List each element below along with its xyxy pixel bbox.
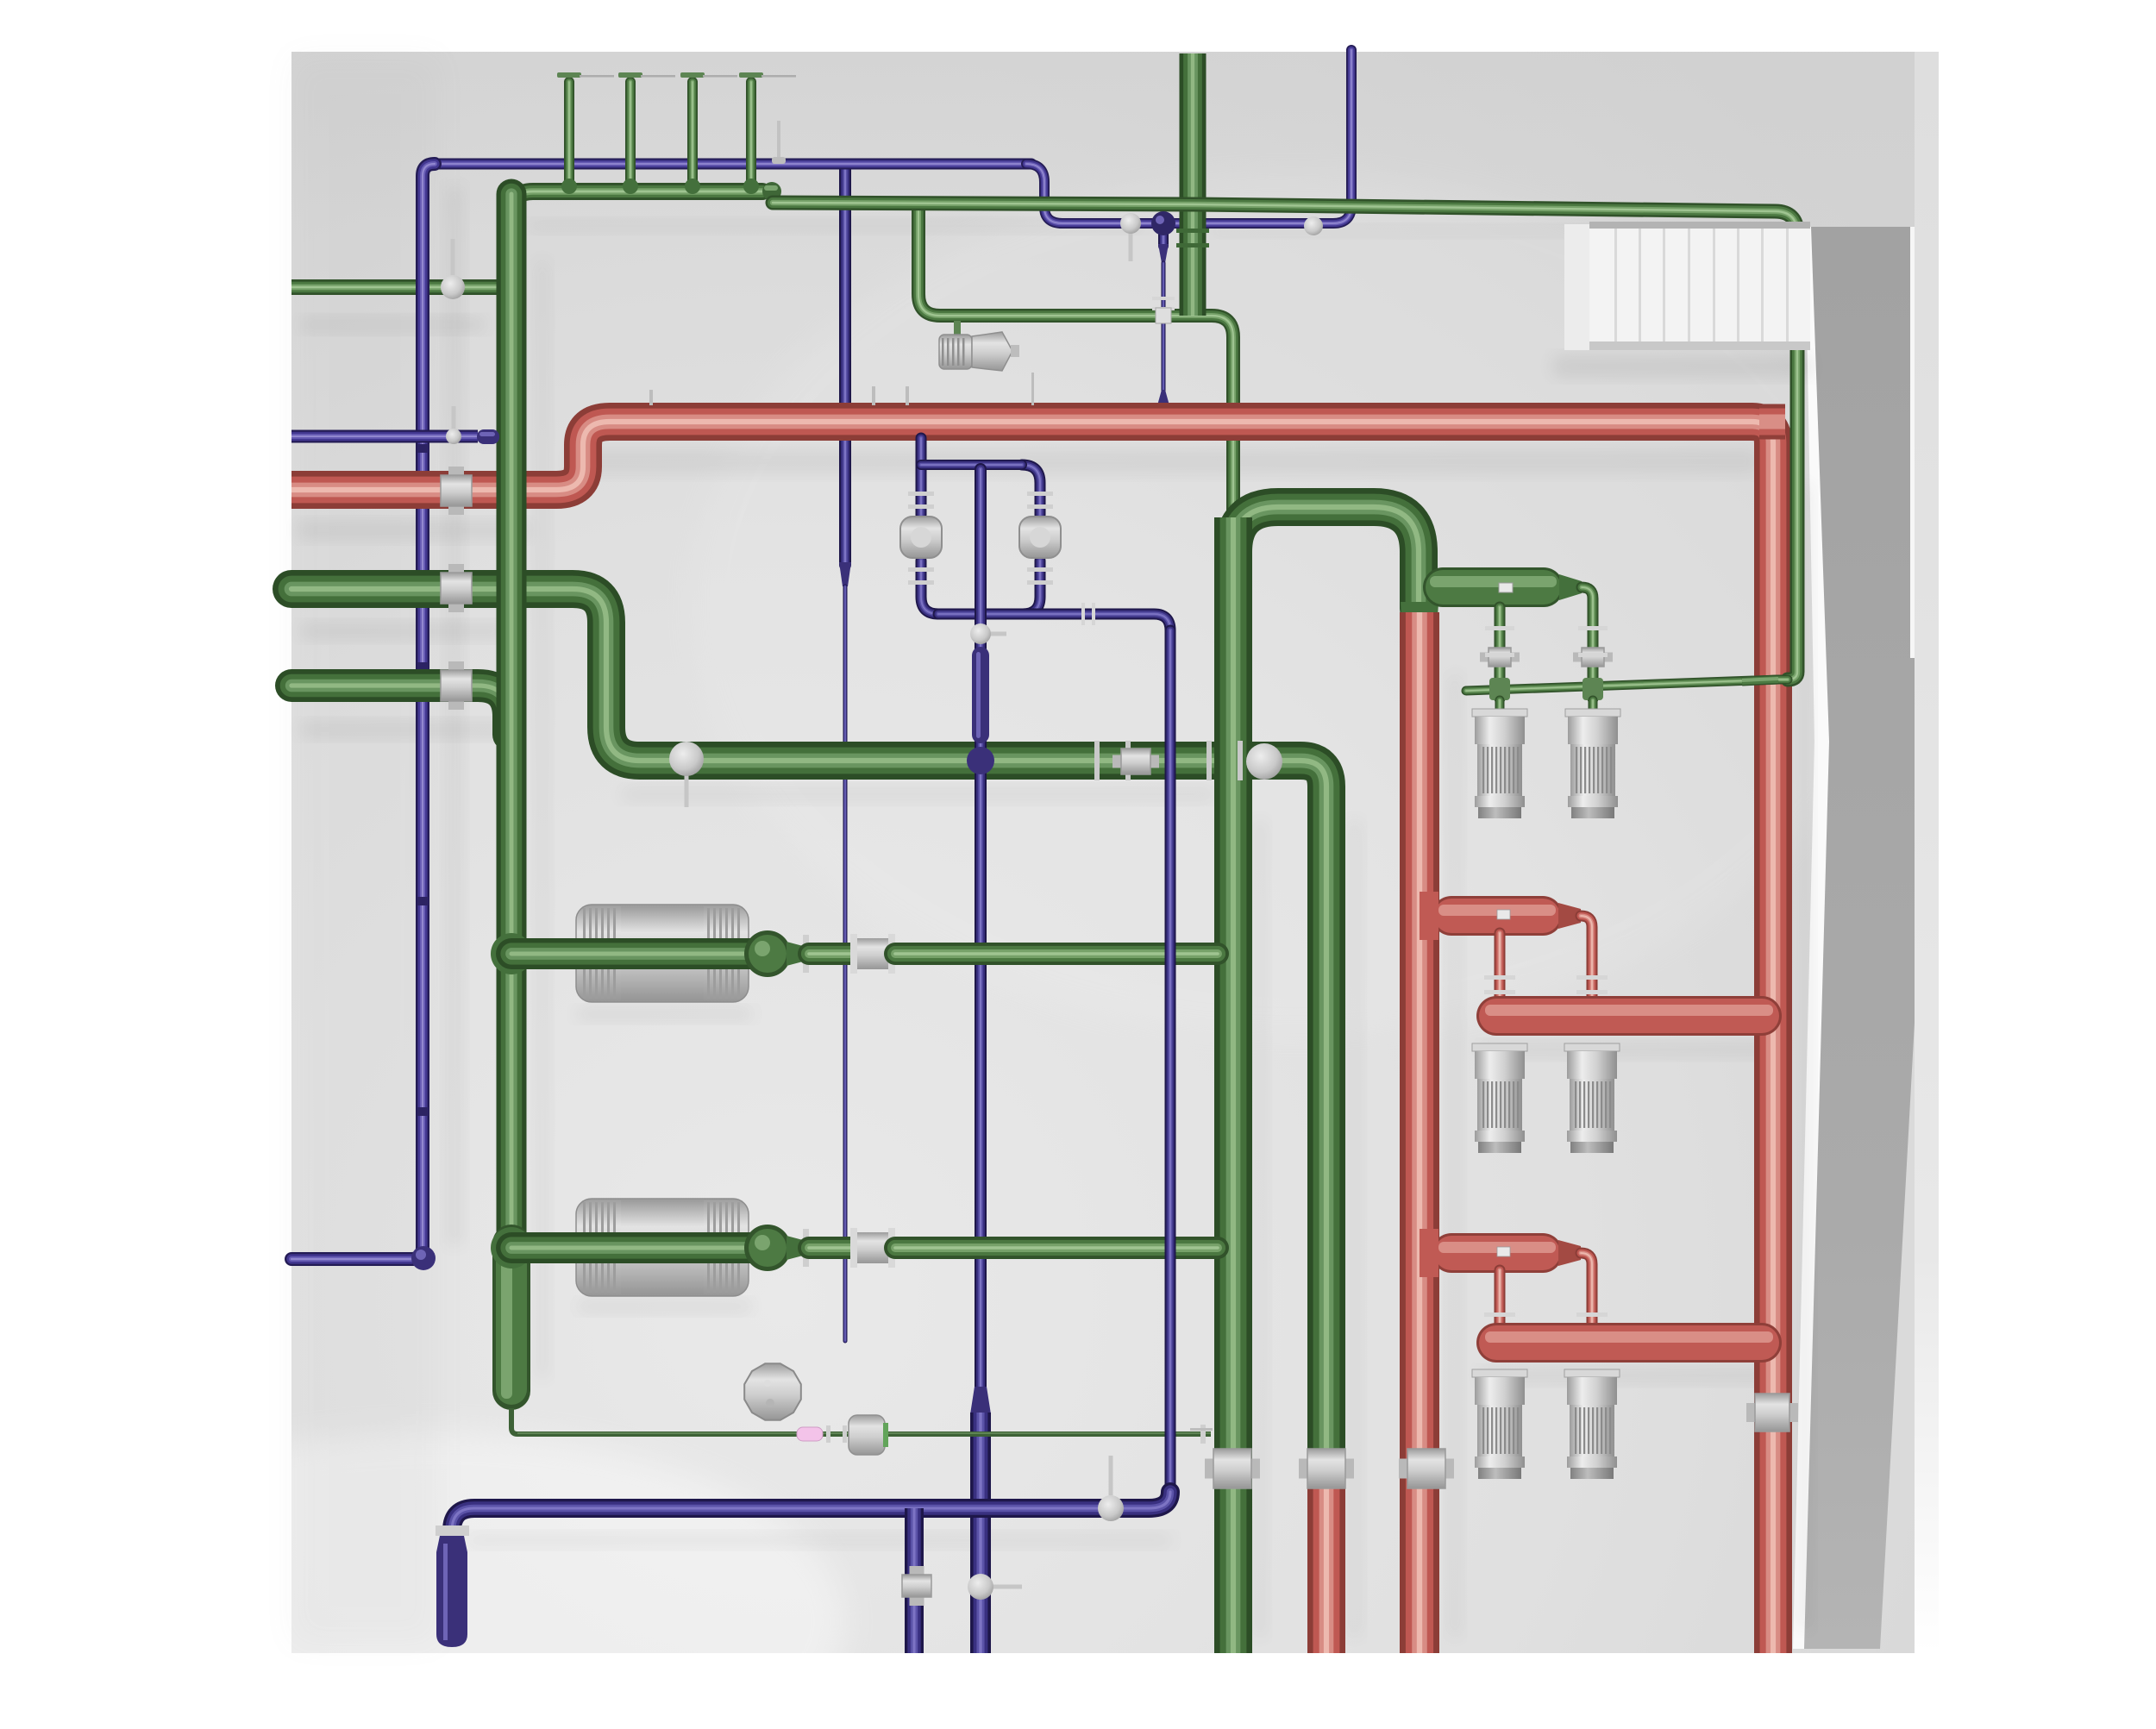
pump motor red 4 [1564, 1369, 1620, 1479]
green branch pipe y795 elbow [291, 686, 509, 735]
pump motor red 2 [1564, 1043, 1620, 1153]
green manifold drop cap [762, 182, 781, 201]
ball valve on purple riser x1137 [968, 1574, 1022, 1600]
purple pump B discharge elbow [1023, 561, 1040, 614]
green pump header pipe y798 [1466, 680, 1788, 691]
green pump inlet east [1589, 700, 1598, 712]
riser weld joint 4 [743, 179, 759, 194]
flange pair on purple drop [1152, 297, 1175, 310]
red suction header 1 [1432, 896, 1563, 936]
red discharge capsule 2 [1476, 1323, 1782, 1363]
green manifold pipe east + riser x2084 [773, 203, 1797, 680]
green suction header [1423, 567, 1564, 607]
green flange pair x1383 [1176, 229, 1209, 247]
valve box on green y795 [441, 661, 472, 710]
valve box on red y568 [441, 467, 472, 515]
purple capsule section x1137 [972, 647, 989, 743]
purple bottle vessel [436, 1525, 469, 1647]
valve on green drop east [1573, 648, 1613, 667]
green process pipe 1 mid [809, 943, 852, 965]
pink inline element [797, 1427, 823, 1441]
green cone line 2 [787, 1236, 803, 1260]
strainer canister 1 [576, 905, 749, 1002]
purple pump header top pipe [921, 460, 1022, 470]
green pump inlet west [1495, 700, 1505, 712]
purple vertical pipe x980 [839, 169, 851, 565]
purple pump B body [1019, 517, 1061, 558]
purple cone lower [1157, 390, 1169, 405]
ball valve on purple riser mid [970, 623, 1006, 644]
purple pump B body outlet flange [1027, 567, 1053, 585]
purple pump B suction elbow [1022, 465, 1040, 515]
flange plate line 2 [803, 1229, 809, 1267]
green process pipe 1 west [511, 938, 752, 969]
purple pump A body inlet flange [908, 492, 934, 509]
red tee bulge upper [1420, 892, 1438, 940]
purple reducer cone x980 [839, 562, 851, 586]
ball valve on purple east [1304, 216, 1323, 235]
drain pump unit [849, 1415, 888, 1455]
ball valve on purple bottom header [1098, 1456, 1124, 1521]
stair block [1589, 222, 1810, 350]
ball valve on purple header [1120, 213, 1141, 261]
valve box on green y683 [441, 564, 472, 612]
riser weld joint 3 [685, 179, 700, 194]
green column capsule bottom [492, 1225, 530, 1410]
drain line tee at x1404 [1200, 1425, 1206, 1444]
pump motor red 3 [1472, 1369, 1527, 1479]
riser flange cap 4 [739, 72, 763, 78]
green riser stub 4 [746, 82, 756, 188]
purple pump B body inlet flange [1027, 492, 1053, 509]
red drop E flanges 2 [1576, 1312, 1608, 1331]
pump motor green east [1565, 709, 1620, 818]
wall right white line [1910, 227, 1915, 658]
flanges green drop east [1578, 626, 1608, 657]
flanges on green at purple crossing E [1206, 741, 1243, 780]
ball valve on green main east [1246, 743, 1282, 780]
expansion coupling line 2 [850, 1228, 857, 1268]
purple sphere joint [1151, 211, 1175, 235]
green to red reducer x1646 [1401, 602, 1438, 617]
purple drop pipe x1060 [905, 1508, 924, 1653]
purple west riser pipe [291, 164, 435, 1259]
purple branch pipe y506 [291, 430, 478, 443]
riser weld joint 2 [623, 179, 638, 194]
green process pipe 2 west [511, 1232, 752, 1263]
purple reducer cone [1158, 244, 1169, 263]
coupling on green main y882 [1112, 749, 1159, 774]
red drop pipe east 2 [1581, 1253, 1592, 1334]
flange pair on purple outlet pipe [1081, 603, 1095, 625]
flanges green drop west [1485, 626, 1514, 657]
expansion coupling line 1 [850, 934, 857, 974]
red drop pipe east 1 [1581, 916, 1592, 1007]
drain line flanges [826, 1425, 830, 1443]
strainer canister 2 [576, 1199, 749, 1296]
couplings on purple riser [417, 444, 429, 1116]
purple pump A body outlet flange [908, 567, 934, 585]
red discharge capsule 1 [1476, 996, 1782, 1036]
purple pump A body [900, 517, 942, 558]
valve box on purple drop [1156, 308, 1171, 323]
purple pump outlet pipe to riser x1357 [938, 614, 1170, 1489]
red drop pipe west 1 [1495, 933, 1506, 1007]
green column pipe x1383 [1180, 53, 1206, 316]
purple riser pipe x1137 lower [970, 1413, 991, 1653]
stair landing [1564, 224, 1589, 350]
valve on green drop west [1480, 648, 1520, 667]
green riser stub 2 [625, 82, 636, 188]
green process pipe 2 mid [809, 1237, 852, 1259]
riser flange cap 2 [618, 72, 642, 78]
coupling on purple drop x1060 [902, 1566, 931, 1606]
flanges on green at purple crossing W [1094, 741, 1131, 780]
purple header jog pipe [1026, 50, 1351, 223]
green pump line 1 tee [491, 933, 532, 974]
purple drop pipe upper [1158, 226, 1169, 246]
right side strip [1915, 52, 1939, 1653]
red vertical pipe x1538 lower [1307, 1466, 1345, 1653]
red main header pipe [291, 422, 1773, 1653]
purple thin vertical pipe x980 lower [843, 586, 848, 1341]
green branch pipe y333 [291, 279, 511, 295]
green pump drop pipe east [1582, 587, 1593, 698]
red drop W flanges 2 [1484, 1312, 1515, 1331]
riser flange cap 3 [680, 72, 705, 78]
small pins on red header [649, 390, 653, 405]
green riser stub 3 [687, 82, 698, 188]
purple junction bulge x1137 [967, 747, 994, 774]
green sphere joint line 1 [744, 930, 791, 977]
PRV unit on green bypass [939, 321, 1019, 371]
green process pipe 1 east [895, 943, 1218, 965]
green process pipe 2 east [895, 1237, 1218, 1259]
valve box on green column x1430 [1205, 1449, 1260, 1488]
pump motor red 1 [1472, 1043, 1527, 1153]
wall top white band [1793, 227, 1830, 1649]
red header cone 1 [1558, 903, 1581, 929]
purple west stub cap [477, 429, 499, 444]
red drop W flanges 1 [1484, 975, 1515, 994]
red drop pipe west 2 [1495, 1270, 1506, 1334]
dodecagon tank lid [744, 1363, 801, 1420]
green pump line 2 tee [491, 1227, 532, 1269]
green sphere joint line 2 [744, 1225, 791, 1271]
red tee bulge lower [1420, 1229, 1438, 1277]
ball valve on green main y882 [669, 742, 704, 807]
cross fitting east [1583, 678, 1603, 700]
green pump drop pipe west [1495, 607, 1506, 698]
cross fitting west [1489, 678, 1510, 700]
ball valve on green y333 [441, 239, 465, 299]
purple cone x1137 [970, 1387, 991, 1414]
purple bottom header pipe [452, 1492, 1170, 1531]
red header overpass at x2084 [1759, 404, 1785, 440]
red drop E flanges 1 [1576, 975, 1608, 994]
green column pipe x1430 [1214, 517, 1252, 1653]
green cone line 1 [787, 942, 803, 966]
green pump header overpass [1742, 679, 1778, 681]
green column pipe x593 [497, 194, 527, 1246]
green n-arc pipe [1233, 507, 1419, 609]
purple pump A discharge elbow [921, 561, 938, 614]
purple riser pipe x1137 [975, 469, 987, 1388]
valve box on column x1538 [1299, 1449, 1354, 1488]
wall dark face [1804, 227, 1930, 1649]
red header cone 2 [1558, 1240, 1581, 1266]
green riser stub 1 [564, 82, 574, 188]
small valve on purple y506 [446, 406, 461, 444]
valve box on red column x2056 [1746, 1394, 1798, 1431]
shadows [297, 185, 1813, 1638]
purple pump A suction pipe [916, 438, 927, 515]
purple drop thin pipe [1162, 263, 1166, 403]
red suction header 2 [1432, 1233, 1563, 1273]
green bypass pipe y366 [918, 205, 1233, 517]
riser flange cap 1 [557, 72, 581, 78]
stem on purple header [777, 121, 780, 160]
flange plate line 1 [803, 935, 809, 973]
green drain line [511, 1408, 1211, 1434]
pump motor green west [1472, 709, 1527, 818]
valve box on red column x1646 [1399, 1449, 1454, 1488]
tag on green header [1499, 583, 1513, 592]
green main pipe y683 jog y882 [291, 589, 1326, 1466]
purple elbow ball joint [411, 1246, 436, 1270]
green header cone [1559, 574, 1582, 600]
green manifold pipe west [511, 191, 762, 214]
purple top header pipe [428, 159, 1031, 170]
red column pipe x1646 [1400, 612, 1439, 1653]
purple riser pipe x1357 (drawn over) [1165, 630, 1176, 1489]
riser weld joint 1 [561, 179, 577, 194]
